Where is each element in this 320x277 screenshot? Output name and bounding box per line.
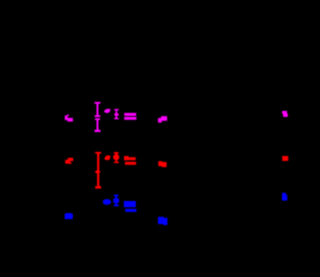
magenta marker A (left, two offset squares) [65, 115, 73, 122]
blue marker C (ellipse) [103, 199, 111, 205]
magenta error bar B upper [95, 102, 101, 117]
magenta series [65, 102, 288, 132]
blue marker G (far right) [282, 193, 287, 201]
red marker G (far right) [282, 156, 288, 161]
magenta dashes E [124, 113, 136, 120]
blue series [65, 193, 288, 225]
magenta marker F (mid right, two offset squares) [158, 116, 167, 122]
red dashes E [124, 156, 136, 165]
red error bar B with diamond marker [95, 152, 102, 189]
magenta marker G (far right) [282, 111, 288, 117]
red series [65, 152, 288, 189]
red error bar D with round marker [113, 152, 119, 163]
magenta error bar D with square marker [114, 109, 119, 119]
red marker F (mid right, two squares) [158, 161, 166, 167]
blue marker A (left) [65, 213, 73, 219]
magenta error bar B lower [95, 118, 101, 132]
blue marker F (mid right, two squares) [158, 217, 167, 225]
blue error bar D with square marker [113, 195, 119, 207]
red marker C (small blob) [104, 155, 110, 160]
red marker A (left, two offset squares) [65, 158, 73, 164]
magenta marker C (small blob) [104, 109, 110, 113]
blue dashes E [124, 201, 137, 212]
